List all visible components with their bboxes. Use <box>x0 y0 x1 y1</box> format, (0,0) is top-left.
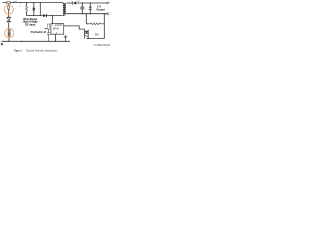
svg-text:DC Input: DC Input <box>25 23 35 26</box>
svg-text:BP/M: BP/M <box>53 29 59 31</box>
svg-text:C1: C1 <box>19 5 21 7</box>
svg-text:(+): (+) <box>14 2 17 4</box>
svg-text:TinySwitch-III: TinySwitch-III <box>30 31 46 34</box>
svg-text:D6: D6 <box>77 1 79 3</box>
svg-text:Output: Output <box>96 7 105 11</box>
svg-text:J9X: J9X <box>94 32 99 36</box>
svg-text:Figure 1.: Figure 1. <box>14 49 23 52</box>
svg-text:PI-4489-042108: PI-4489-042108 <box>94 45 111 47</box>
svg-text:Typical Standby Application: Typical Standby Application <box>26 49 58 53</box>
svg-text:EN/UV: EN/UV <box>55 25 62 27</box>
